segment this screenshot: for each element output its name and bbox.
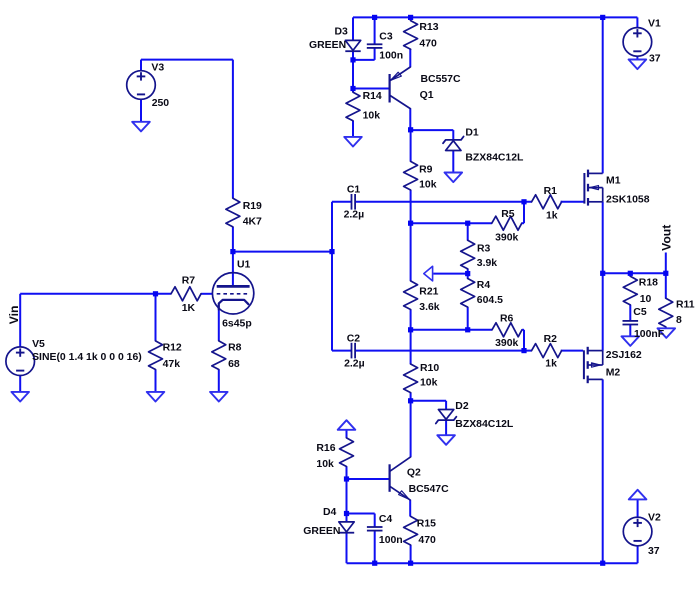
label V2 bbox=[648, 512, 661, 523]
wire anode row bbox=[233, 251, 332, 253]
svg-text:C4: C4 bbox=[379, 514, 393, 525]
wire R12 leads bbox=[155, 294, 157, 392]
wire arrow flag to node bbox=[433, 273, 467, 275]
label V1 bbox=[648, 19, 661, 30]
svg-text:R13: R13 bbox=[419, 22, 438, 33]
wire M2 source rail bbox=[602, 273, 604, 350]
svg-text:2.2µ: 2.2µ bbox=[344, 358, 365, 369]
resistor R8 bbox=[212, 341, 226, 370]
label 100n bbox=[379, 50, 403, 61]
junction R11 top bbox=[663, 271, 668, 276]
svg-text:2.2µ: 2.2µ bbox=[344, 210, 365, 221]
label R2 bbox=[544, 334, 558, 345]
label R7 bbox=[182, 276, 196, 287]
label 100n bbox=[379, 535, 403, 546]
label 470 bbox=[419, 38, 437, 49]
svg-text:1k: 1k bbox=[545, 358, 557, 369]
svg-text:M1: M1 bbox=[606, 175, 621, 186]
label 10k bbox=[363, 111, 381, 122]
label 68 bbox=[228, 359, 240, 370]
wire bottom rail bbox=[347, 562, 638, 564]
resistor R1 bbox=[532, 195, 562, 209]
wire R1 to M1 gate bbox=[561, 201, 584, 203]
label Q2 bbox=[407, 468, 421, 479]
svg-text:BZX84C12L: BZX84C12L bbox=[455, 419, 514, 430]
net label Vin bbox=[7, 306, 21, 325]
label 37 bbox=[648, 546, 660, 557]
wire R13 leads bbox=[409, 17, 411, 67]
wire R9 to R21 chain bbox=[410, 190, 412, 281]
wire input row bbox=[20, 293, 171, 295]
wire R8 leads bbox=[218, 308, 220, 392]
label R10 bbox=[420, 363, 439, 374]
wire V1 leads bbox=[636, 17, 638, 59]
junction Q1 collector node bbox=[408, 127, 413, 132]
label R8 bbox=[228, 342, 242, 353]
svg-text:Vin: Vin bbox=[7, 306, 21, 325]
source V3 bbox=[127, 71, 156, 100]
svg-text:390k: 390k bbox=[495, 232, 518, 243]
junction M1 gate node bbox=[521, 199, 526, 204]
svg-text:R9: R9 bbox=[419, 165, 433, 176]
svg-text:V2: V2 bbox=[648, 512, 661, 523]
svg-text:250: 250 bbox=[152, 98, 170, 109]
label R21 bbox=[419, 286, 438, 297]
label 100nF bbox=[634, 329, 664, 340]
label V3 bbox=[151, 62, 164, 73]
svg-text:C5: C5 bbox=[633, 307, 647, 318]
label SINE(0 1.4 1k 0 0 0 16) bbox=[32, 352, 142, 363]
label 10 bbox=[640, 294, 652, 305]
wire D1 lead bbox=[452, 151, 454, 173]
wire C1 C2 left riser bbox=[331, 202, 333, 351]
label R13 bbox=[419, 22, 438, 33]
svg-text:R11: R11 bbox=[676, 300, 695, 311]
wire M1 drain rail bbox=[602, 17, 604, 173]
wire V2 leads bbox=[637, 499, 639, 563]
resistor R14 bbox=[346, 92, 360, 121]
svg-text:37: 37 bbox=[649, 53, 661, 64]
wire M1 source rail bbox=[602, 202, 604, 273]
label BC547C bbox=[409, 484, 449, 495]
wire R3 R4 chain bbox=[467, 223, 469, 330]
junction D4 anode node bbox=[344, 511, 349, 516]
label D1 bbox=[465, 127, 479, 138]
label 2.2&#181; bbox=[344, 210, 365, 221]
capacitor C1 bbox=[352, 194, 356, 210]
svg-text:68: 68 bbox=[228, 359, 240, 370]
ground V3 bbox=[132, 122, 150, 132]
label C3 bbox=[379, 32, 393, 43]
wire Q2 base bbox=[347, 478, 390, 480]
ground R14 bbox=[344, 137, 362, 147]
label D2 bbox=[455, 401, 469, 412]
label 390k bbox=[495, 232, 518, 243]
ground R11 bbox=[658, 328, 676, 338]
label 10k bbox=[419, 180, 437, 191]
label 2.2&#181; bbox=[344, 358, 365, 369]
wire R14 lead bbox=[352, 121, 354, 137]
wire C4 leads bbox=[374, 514, 376, 564]
wire V5 bottom lead bbox=[19, 375, 21, 392]
junction Q1 base node bbox=[350, 86, 355, 91]
ground V5 bbox=[11, 392, 29, 402]
svg-text:V1: V1 bbox=[648, 19, 661, 30]
wire R18 leads bbox=[629, 273, 631, 321]
junction R13 top bbox=[408, 15, 413, 20]
wire R15 bottom bbox=[410, 545, 412, 563]
wire V3 to R19 top bbox=[141, 60, 233, 199]
svg-text:R18: R18 bbox=[639, 278, 658, 289]
junction R3 bottom node bbox=[465, 271, 470, 276]
junction Vout rail bbox=[600, 271, 605, 276]
svg-text:M2: M2 bbox=[606, 368, 621, 379]
label R11 bbox=[676, 300, 695, 311]
wire C1 row right bbox=[355, 201, 532, 203]
resistor R4 bbox=[461, 279, 475, 308]
label 10k bbox=[420, 378, 438, 389]
svg-text:BZX84C12L: BZX84C12L bbox=[465, 152, 524, 163]
svg-text:R19: R19 bbox=[243, 201, 262, 212]
wire Q2 emitter to R15 bbox=[409, 500, 411, 517]
svg-text:3.6k: 3.6k bbox=[419, 302, 440, 313]
label U1 bbox=[237, 260, 251, 271]
svg-text:470: 470 bbox=[419, 38, 437, 49]
label C1 bbox=[347, 185, 361, 196]
svg-text:R15: R15 bbox=[417, 519, 436, 530]
svg-text:390k: 390k bbox=[495, 338, 518, 349]
wire R6 row bbox=[411, 329, 492, 331]
diode D3 bbox=[345, 40, 360, 51]
label 2SK1058 bbox=[606, 194, 650, 205]
label 1K bbox=[182, 303, 196, 314]
ground R8 bbox=[210, 392, 228, 402]
wire top supply rail bbox=[353, 16, 637, 18]
label 3.9k bbox=[477, 258, 498, 269]
wire C5 bottom lead bbox=[629, 324, 631, 336]
wire M2 drain rail bbox=[602, 379, 604, 563]
svg-text:10k: 10k bbox=[420, 378, 438, 389]
svg-text:4K7: 4K7 bbox=[243, 216, 262, 227]
wire V5 top lead bbox=[19, 294, 21, 347]
svg-text:R8: R8 bbox=[228, 342, 242, 353]
svg-text:470: 470 bbox=[418, 535, 436, 546]
wire D2 lead bbox=[445, 421, 447, 436]
wire Q1 collector lead bbox=[409, 108, 411, 161]
junction C1 branch bbox=[329, 249, 334, 254]
label R12 bbox=[163, 342, 182, 353]
label 470 bbox=[418, 535, 436, 546]
svg-text:R2: R2 bbox=[544, 334, 558, 345]
label GREEN bbox=[303, 526, 340, 537]
svg-text:R14: R14 bbox=[363, 91, 382, 102]
ground V2 inverted bbox=[629, 490, 647, 500]
resistor R12 bbox=[149, 341, 163, 370]
svg-text:10: 10 bbox=[640, 294, 652, 305]
junction D3 cathode bbox=[350, 57, 355, 62]
svg-text:100n: 100n bbox=[379, 50, 403, 61]
label BZX84C12L bbox=[455, 419, 514, 430]
label 47k bbox=[163, 359, 181, 370]
svg-text:R4: R4 bbox=[477, 280, 491, 291]
resistor R10 bbox=[404, 364, 418, 393]
svg-text:Q2: Q2 bbox=[407, 468, 421, 479]
transistor Q1 bbox=[390, 67, 411, 109]
label 37 bbox=[649, 53, 661, 64]
junction R9 bottom node bbox=[408, 221, 413, 226]
wire R9 bottom row to R5 bbox=[411, 222, 492, 224]
svg-text:D4: D4 bbox=[323, 507, 337, 518]
label BC557C bbox=[421, 74, 461, 85]
label 6s45p bbox=[222, 319, 252, 330]
junction R18 top bbox=[628, 271, 633, 276]
svg-text:C2: C2 bbox=[347, 334, 361, 345]
wire R16 D4 branch bbox=[346, 430, 348, 563]
svg-text:D2: D2 bbox=[455, 401, 469, 412]
label R5 bbox=[501, 209, 515, 220]
svg-text:D3: D3 bbox=[335, 27, 349, 38]
svg-text:47k: 47k bbox=[163, 359, 181, 370]
label R16 bbox=[316, 443, 335, 454]
zener D2 bbox=[436, 410, 457, 424]
label 2SJ162 bbox=[606, 350, 642, 361]
svg-text:1k: 1k bbox=[546, 210, 558, 221]
label 1k bbox=[546, 210, 558, 221]
svg-text:D1: D1 bbox=[465, 127, 479, 138]
label R9 bbox=[419, 165, 433, 176]
label R18 bbox=[639, 278, 658, 289]
wire R6 riser bbox=[523, 330, 525, 351]
svg-text:Q1: Q1 bbox=[420, 90, 434, 101]
wire R10 to Q2 bbox=[410, 393, 412, 458]
label 1k bbox=[545, 358, 557, 369]
label 390k bbox=[495, 338, 518, 349]
resistor R2 bbox=[532, 344, 562, 358]
resistor R16 bbox=[340, 438, 354, 467]
label C4 bbox=[379, 514, 393, 525]
label R15 bbox=[417, 519, 436, 530]
resistor R15 bbox=[404, 516, 418, 545]
resistor R3 bbox=[461, 240, 475, 269]
label 4K7 bbox=[243, 216, 262, 227]
source V5 bbox=[6, 347, 35, 376]
label D3 bbox=[335, 27, 349, 38]
junction Q2 base node bbox=[344, 476, 349, 481]
svg-text:R21: R21 bbox=[419, 286, 438, 297]
label R19 bbox=[243, 201, 262, 212]
wire R10 bottom to D2 bbox=[411, 401, 447, 410]
svg-text:GREEN: GREEN bbox=[309, 40, 346, 51]
svg-text:U1: U1 bbox=[237, 260, 251, 271]
wire C1 row left bbox=[332, 201, 352, 203]
resistor R5 bbox=[492, 216, 524, 230]
resistor R7 bbox=[171, 287, 201, 301]
ground V1 bbox=[629, 60, 647, 70]
wire R2 to M2 gate bbox=[561, 350, 583, 352]
mosfet M2 bbox=[584, 347, 603, 383]
label D4 bbox=[323, 507, 337, 518]
svg-text:10k: 10k bbox=[419, 180, 437, 191]
label R4 bbox=[477, 280, 491, 291]
junction C3 top bbox=[372, 15, 377, 20]
svg-text:R12: R12 bbox=[163, 342, 182, 353]
svg-text:3.9k: 3.9k bbox=[477, 258, 498, 269]
mosfet M1 bbox=[584, 170, 602, 206]
svg-text:604.5: 604.5 bbox=[477, 295, 503, 306]
wire C2 row left bbox=[332, 350, 352, 352]
svg-text:2SK1058: 2SK1058 bbox=[606, 194, 650, 205]
svg-text:BC557C: BC557C bbox=[421, 74, 461, 85]
svg-text:C3: C3 bbox=[379, 32, 393, 43]
svg-text:R16: R16 bbox=[316, 443, 335, 454]
capacitor C2 bbox=[352, 343, 356, 359]
svg-text:R10: R10 bbox=[420, 363, 439, 374]
capacitor C4 bbox=[367, 527, 383, 531]
label Q1 bbox=[420, 90, 434, 101]
resistor R11 bbox=[659, 298, 673, 327]
svg-text:R7: R7 bbox=[182, 276, 196, 287]
svg-text:100n: 100n bbox=[379, 535, 403, 546]
junction M2 gate node bbox=[521, 348, 526, 353]
svg-text:R5: R5 bbox=[501, 209, 515, 220]
label R1 bbox=[544, 186, 558, 197]
resistor R18 bbox=[623, 276, 637, 305]
svg-text:10k: 10k bbox=[363, 111, 381, 122]
capacitor C3 bbox=[367, 44, 383, 48]
svg-text:2SJ162: 2SJ162 bbox=[606, 350, 642, 361]
label 3.6k bbox=[419, 302, 440, 313]
label R3 bbox=[477, 244, 491, 255]
net label Vout bbox=[659, 225, 673, 251]
junction C4 bottom bbox=[372, 561, 377, 566]
junction R4 bottom node bbox=[465, 327, 470, 332]
svg-text:R6: R6 bbox=[500, 314, 514, 325]
wire R5 riser bbox=[523, 202, 525, 223]
wire D3 branch bbox=[352, 17, 354, 92]
svg-text:6s45p: 6s45p bbox=[222, 319, 252, 330]
triode U1 bbox=[212, 273, 253, 314]
svg-text:SINE(0 1.4 1k 0 0 0 16): SINE(0 1.4 1k 0 0 0 16) bbox=[32, 352, 142, 363]
svg-text:37: 37 bbox=[648, 546, 660, 557]
junction R3 top node bbox=[465, 221, 470, 226]
svg-text:V3: V3 bbox=[151, 62, 164, 73]
svg-text:GREEN: GREEN bbox=[303, 526, 340, 537]
label BZX84C12L bbox=[465, 152, 524, 163]
junction R15 bottom bbox=[408, 561, 413, 566]
label M1 bbox=[606, 175, 621, 186]
wire R11 leads bbox=[665, 273, 667, 328]
wire C2 row right bbox=[355, 350, 532, 352]
ground R12 bbox=[147, 392, 165, 402]
ground D1 bbox=[445, 173, 463, 183]
label V5 bbox=[32, 339, 45, 350]
resistor R13 bbox=[404, 21, 418, 50]
svg-text:C1: C1 bbox=[347, 185, 361, 196]
wire V3 bottom lead bbox=[140, 60, 142, 122]
source V2 bbox=[623, 517, 652, 546]
label 604.5 bbox=[477, 295, 503, 306]
arrow flag bbox=[424, 266, 433, 281]
wire C3 leads bbox=[374, 17, 376, 60]
label C2 bbox=[347, 334, 361, 345]
wire Vout row bbox=[603, 272, 666, 274]
wire R21 to R10 chain bbox=[410, 310, 412, 365]
junction U1 anode node bbox=[230, 249, 235, 254]
svg-text:V5: V5 bbox=[32, 339, 45, 350]
resistor R21 bbox=[404, 281, 418, 310]
junction R21 bottom node bbox=[408, 327, 413, 332]
label 8 bbox=[676, 315, 682, 326]
label M2 bbox=[606, 368, 621, 379]
svg-text:10k: 10k bbox=[316, 459, 334, 470]
svg-text:Vout: Vout bbox=[659, 225, 673, 251]
ground D2 bbox=[437, 435, 455, 445]
wire Vout stub bbox=[665, 253, 667, 274]
resistor R9 bbox=[404, 161, 418, 190]
zener D1 bbox=[443, 137, 464, 151]
capacitor C5 bbox=[623, 321, 639, 325]
diode D4 bbox=[339, 522, 354, 533]
svg-text:BC547C: BC547C bbox=[409, 484, 449, 495]
label 250 bbox=[152, 98, 170, 109]
ground C5 bbox=[622, 336, 640, 346]
ground R16 inverted bbox=[338, 420, 356, 430]
wire C4 jog bbox=[347, 513, 375, 515]
wire R7 to U1 grid bbox=[201, 293, 213, 295]
source V1 bbox=[623, 28, 652, 57]
resistor R6 bbox=[492, 323, 524, 337]
label R14 bbox=[363, 91, 382, 102]
svg-text:1K: 1K bbox=[182, 303, 196, 314]
svg-text:R1: R1 bbox=[544, 186, 558, 197]
junction rail top bbox=[600, 15, 605, 20]
resistor R19 bbox=[226, 198, 240, 227]
svg-text:8: 8 bbox=[676, 315, 682, 326]
wire C3 bottom jog bbox=[353, 59, 375, 61]
svg-text:R3: R3 bbox=[477, 244, 491, 255]
junction V2 rail bbox=[600, 561, 605, 566]
label 10k bbox=[316, 459, 334, 470]
wire Q1 base bbox=[353, 88, 390, 90]
svg-text:100nF: 100nF bbox=[634, 329, 664, 340]
transistor Q2 bbox=[390, 457, 411, 500]
label GREEN bbox=[309, 40, 346, 51]
label C5 bbox=[633, 307, 647, 318]
junction R12 top node bbox=[153, 291, 158, 296]
wire R19 bottom to U1 anode bbox=[232, 227, 234, 286]
junction R10 bottom node bbox=[408, 398, 413, 403]
label R6 bbox=[500, 314, 514, 325]
wire Q1 collector to D1 bbox=[411, 130, 454, 140]
